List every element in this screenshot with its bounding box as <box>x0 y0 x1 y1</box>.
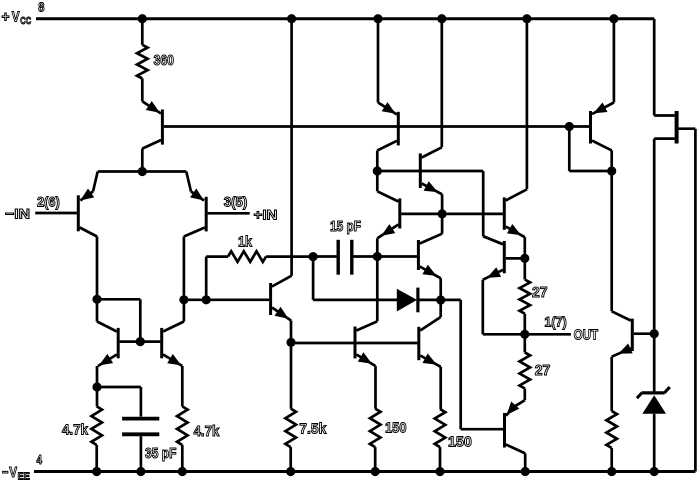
svg-text:150: 150 <box>385 420 407 437</box>
svg-text:CC: CC <box>20 15 31 27</box>
svg-text:7.5k: 7.5k <box>299 421 327 438</box>
svg-text:OUT: OUT <box>574 327 599 344</box>
svg-text:27: 27 <box>535 362 551 379</box>
svg-text:8: 8 <box>38 0 44 15</box>
svg-text:150: 150 <box>448 434 472 451</box>
svg-text:1k: 1k <box>238 234 253 251</box>
svg-text:3(5): 3(5) <box>224 194 248 210</box>
svg-text:V: V <box>12 10 20 26</box>
svg-text:2(6): 2(6) <box>37 194 60 210</box>
svg-text:+: + <box>2 10 10 26</box>
svg-text:1(7): 1(7) <box>544 314 566 330</box>
svg-text:V: V <box>9 465 17 481</box>
svg-text:27: 27 <box>532 284 548 301</box>
svg-text:15 pF: 15 pF <box>330 218 361 235</box>
svg-text:4: 4 <box>37 452 43 467</box>
svg-text:360: 360 <box>154 52 175 69</box>
svg-text:−IN: −IN <box>5 206 30 222</box>
svg-text:4.7k: 4.7k <box>62 422 89 439</box>
svg-text:4.7k: 4.7k <box>194 423 220 440</box>
svg-text:EE: EE <box>18 470 30 482</box>
svg-text:+IN: +IN <box>254 207 278 223</box>
svg-text:35 pF: 35 pF <box>145 445 177 462</box>
svg-text:−: − <box>2 465 9 481</box>
